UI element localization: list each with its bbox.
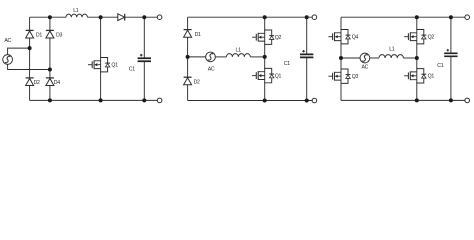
svg-text:D2: D2 [34,80,40,86]
svg-text:D1: D1 [36,32,42,38]
svg-text:D1: D1 [195,32,201,38]
svg-text:Q3: Q3 [352,74,359,80]
svg-text:D3: D3 [56,32,62,38]
svg-text:L1: L1 [236,48,242,54]
svg-text:D4: D4 [54,80,60,86]
svg-text:Q2: Q2 [428,35,435,41]
svg-text:C1: C1 [129,67,135,73]
svg-text:Q1: Q1 [428,74,435,80]
svg-text:Q4: Q4 [352,35,359,41]
svg-text:Q1: Q1 [275,74,282,80]
svg-text:C1: C1 [437,63,443,69]
svg-text:D2: D2 [194,79,200,85]
svg-text:L1: L1 [389,46,395,52]
svg-text:AC: AC [208,66,215,72]
svg-text:Q2: Q2 [275,35,282,41]
svg-text:AC: AC [362,65,369,71]
svg-text:Q1: Q1 [111,63,118,69]
svg-text:C1: C1 [284,61,290,67]
svg-text:AC: AC [4,38,11,44]
svg-text:L1: L1 [73,8,79,14]
